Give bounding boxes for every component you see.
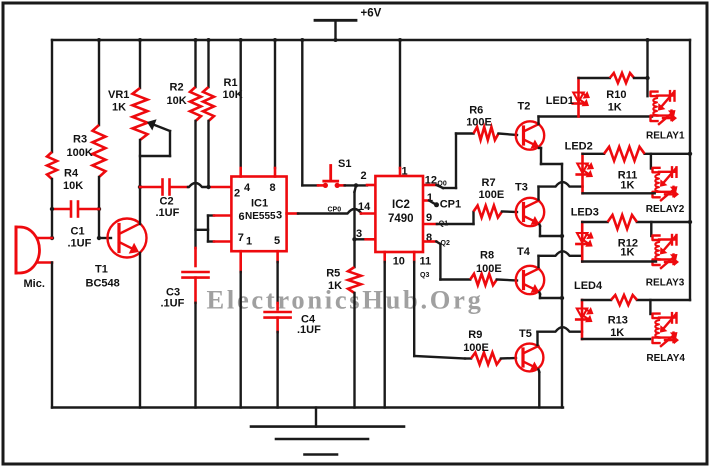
svg-text:10K: 10K [63, 180, 83, 192]
node rail junction [300, 38, 304, 42]
svg-text:2: 2 [361, 170, 367, 182]
node T3 emitter join [560, 234, 564, 238]
resistor R7 [474, 206, 503, 218]
svg-text:8: 8 [270, 182, 276, 194]
svg-text:9: 9 [426, 212, 432, 224]
svg-text:R9: R9 [468, 329, 482, 341]
wire T1 base [99, 237, 111, 239]
wire T2 emitter [539, 147, 541, 149]
wire relay4 feed [649, 300, 651, 314]
wire VR1 to C2 node [139, 140, 141, 187]
node base [97, 236, 101, 240]
wire Q1 to R7 [424, 223, 437, 226]
wire T3 emitter [538, 225, 541, 227]
wire +6V drop to relay1 [646, 40, 648, 96]
wire Q2 to R8 [424, 240, 437, 243]
svg-text:T5: T5 [519, 328, 532, 340]
svg-text:C2: C2 [160, 196, 174, 208]
svg-text:S1: S1 [338, 158, 351, 170]
svg-text:1K: 1K [620, 247, 634, 259]
node R10 junction [645, 76, 649, 80]
relay RELAY3 [653, 236, 660, 241]
wire IC1 pin1 to ground [239, 251, 242, 272]
wire ch4 top [582, 299, 611, 301]
node rail junction [97, 38, 101, 42]
node R1 bottom [206, 185, 210, 189]
svg-text:.1UF: .1UF [68, 237, 92, 249]
resistor R12 [608, 215, 637, 229]
svg-text:CP0: CP0 [328, 207, 342, 214]
wire IC1 pin8 to rail [274, 40, 276, 168]
svg-text:100E: 100E [476, 263, 502, 275]
svg-text:R10: R10 [606, 89, 626, 101]
wire rail to R1 [207, 40, 209, 87]
pin CP1 stub [424, 199, 430, 202]
wire ch2 bottom [583, 192, 655, 194]
capacitor C1 [70, 202, 73, 217]
svg-text:R8: R8 [480, 250, 494, 262]
wire mic to ground rail [51, 263, 53, 408]
wire rail to R3 [98, 40, 100, 125]
resistor R13 [611, 295, 637, 305]
svg-text:NE555: NE555 [245, 211, 276, 222]
led LED2 [581, 154, 584, 194]
svg-text:.1UF: .1UF [161, 297, 185, 309]
wire rail to S1 [301, 40, 303, 185]
node C1 right [97, 207, 101, 211]
node rail junction [207, 38, 211, 42]
svg-text:14: 14 [358, 201, 371, 213]
svg-text:10: 10 [393, 256, 405, 268]
svg-text:T4: T4 [517, 246, 531, 258]
wire rail to R2 [194, 40, 196, 87]
wire S1 junction down [355, 185, 357, 192]
wire ground bottom rail [52, 406, 563, 408]
svg-text:T2: T2 [518, 101, 531, 113]
led LED4 [581, 300, 584, 339]
power +6V symbol [334, 20, 336, 40]
svg-text:7: 7 [238, 232, 244, 244]
svg-text:R5: R5 [326, 268, 340, 280]
resistor R5 [348, 267, 361, 293]
wire C3 to ground rail [194, 278, 197, 303]
svg-text:RELAY3: RELAY3 [646, 278, 685, 289]
counter IC2 7490 box [375, 176, 423, 252]
wire R6 to T2 base [499, 134, 518, 136]
wire T3 collector [537, 187, 539, 200]
wire +6V top rail [52, 39, 690, 41]
resistor R4 [47, 152, 57, 179]
resistor R9 [471, 353, 501, 365]
wire C2 to pin2 with hop [172, 186, 189, 189]
microphone Mic. [15, 227, 18, 273]
resistor R1 [203, 87, 214, 121]
wire IC1 pin5 to C4 [276, 251, 279, 262]
svg-text:RELAY4: RELAY4 [646, 353, 685, 364]
svg-text:IC2: IC2 [392, 199, 410, 211]
svg-text:2: 2 [234, 187, 240, 199]
wire ch1 top [579, 77, 610, 79]
svg-text:4: 4 [244, 182, 251, 194]
wire R5 to ground [353, 293, 355, 408]
svg-text:C1: C1 [71, 226, 85, 238]
svg-text:LED3: LED3 [571, 206, 599, 218]
svg-text:IC1: IC1 [251, 197, 268, 209]
relay RELAY2 [653, 168, 660, 173]
wire T1 collector [139, 187, 141, 224]
wire Q3 pin11 to R9 [413, 252, 416, 262]
svg-text:.1UF: .1UF [156, 207, 180, 219]
svg-text:100E: 100E [463, 342, 489, 354]
svg-text:10K: 10K [167, 95, 187, 107]
wire ch2 top [583, 153, 605, 155]
resistor R8 [470, 274, 497, 285]
svg-text:.1UF: .1UF [297, 324, 321, 336]
svg-text:7490: 7490 [388, 213, 414, 225]
wire IC1 pin4 to rail [239, 40, 241, 168]
svg-text:R3: R3 [73, 134, 87, 146]
wire T4 emitter [538, 293, 541, 295]
wire rail to VR1 [139, 40, 141, 88]
node rail junction [334, 38, 338, 42]
svg-text:Mic.: Mic. [24, 278, 45, 290]
svg-text:Q3: Q3 [420, 272, 429, 279]
svg-text:CP1: CP1 [440, 198, 461, 210]
wire IC2 pin10 to ground [383, 252, 386, 262]
wire mic top stub [38, 237, 52, 240]
wire right rail [689, 40, 691, 300]
svg-text:R13: R13 [608, 315, 628, 327]
transistor T1 BC548 [108, 219, 147, 258]
node C2 left [138, 185, 142, 189]
svg-text:1: 1 [402, 166, 408, 178]
wire R8 to T4 base [497, 280, 517, 281]
ground [315, 408, 317, 427]
wire CP0 line [287, 212, 298, 215]
wire S1 to IC2 pin2 [345, 184, 367, 186]
wire Q0 to R6 [424, 184, 437, 187]
svg-text:LED2: LED2 [565, 141, 593, 153]
transistor Q T3 [516, 198, 544, 226]
svg-text:BC548: BC548 [86, 278, 120, 290]
svg-text:11: 11 [420, 256, 432, 268]
wire to IC2 pin3 [355, 238, 366, 240]
node mic-top [50, 236, 54, 240]
wire R4 to mic node [51, 179, 53, 238]
wire R1 to C2 line [207, 121, 209, 187]
svg-text:Q2: Q2 [441, 240, 450, 247]
svg-text:R6: R6 [469, 105, 483, 117]
svg-text:+6V: +6V [361, 8, 382, 20]
wire ch1 bottom [539, 115, 653, 117]
wire emitter rail [561, 164, 563, 408]
potentiometer VR1 [133, 88, 148, 140]
wire IC2 pin1 to rail [399, 40, 401, 168]
capacitor C3 [183, 271, 209, 274]
wire C4 to ground [276, 318, 279, 332]
wire rail to R4 [51, 40, 53, 152]
switch S1 [318, 184, 325, 187]
svg-text:T1: T1 [95, 264, 108, 276]
svg-text:1: 1 [246, 236, 252, 248]
svg-text:LED1: LED1 [546, 95, 574, 107]
svg-text:1K: 1K [608, 101, 622, 113]
transistor Q T5 [516, 344, 544, 372]
wire R7 to T3 base [502, 210, 517, 213]
svg-text:R1: R1 [224, 77, 238, 89]
svg-text:R2: R2 [170, 82, 184, 94]
wire R10 to relay1 [634, 77, 647, 79]
svg-text:3: 3 [356, 228, 362, 240]
svg-text:3: 3 [276, 209, 282, 221]
svg-text:R7: R7 [482, 177, 496, 189]
resistor R10 [610, 73, 634, 83]
wire ch4 bottom [582, 338, 650, 340]
wire T1 emitter to ground [139, 253, 141, 408]
transistor Q T4 [516, 266, 544, 294]
node T4 emitter join [560, 296, 564, 300]
svg-text:T3: T3 [515, 182, 528, 194]
wire T5 emitter [537, 370, 540, 373]
wire T4 collector [537, 256, 539, 267]
svg-text:100E: 100E [466, 117, 492, 129]
svg-text:RELAY1: RELAY1 [646, 130, 685, 141]
node rail junction [194, 38, 198, 42]
resistor R2 [190, 87, 201, 121]
svg-text:1K: 1K [328, 280, 342, 292]
wire relay3 feed [650, 222, 652, 236]
resistor R6 [474, 127, 499, 140]
wire R3 to base node [98, 177, 100, 238]
op-amp U IC1 NE555 box [231, 177, 286, 252]
relay RELAY4 [653, 314, 660, 319]
node C1 left [50, 207, 54, 211]
svg-text:100K: 100K [67, 147, 93, 159]
capacitor C4 [265, 311, 291, 314]
node S1 junction [354, 183, 358, 187]
capacitor C2 [161, 180, 164, 195]
svg-text:100E: 100E [479, 189, 505, 201]
node ch2 rail join [688, 152, 692, 156]
node rail junction [138, 38, 142, 42]
svg-text:1K: 1K [620, 180, 634, 192]
node rail junction [646, 38, 650, 42]
wire ch3 bottom [582, 260, 656, 262]
wire T2 collector [537, 117, 539, 125]
node rail junction [239, 38, 243, 42]
svg-text:ElectronicsHub.Org: ElectronicsHub.Org [207, 285, 484, 315]
resistor R3 [93, 125, 106, 177]
wire ch3 top [582, 221, 607, 223]
svg-text:6: 6 [239, 211, 245, 223]
svg-text:1K: 1K [610, 327, 624, 339]
led LED1 [577, 78, 580, 117]
transistor Q T2 [516, 121, 544, 149]
wire relay2 feed [650, 154, 652, 169]
wire R9 to T5 base [501, 357, 516, 360]
wire R2 to C3 [194, 121, 196, 248]
svg-text:R4: R4 [64, 168, 79, 180]
wire mic bottom stub [38, 261, 52, 264]
node pin3 junction [352, 237, 356, 241]
svg-text:LED4: LED4 [574, 280, 603, 292]
svg-text:RELAY2: RELAY2 [646, 204, 685, 215]
svg-text:5: 5 [274, 235, 280, 247]
led LED3 [581, 222, 584, 262]
wire T5 collector [536, 332, 538, 345]
relay RELAY1 [651, 92, 658, 97]
wire pin6-7 bracket [196, 229, 209, 231]
svg-text:1K: 1K [112, 102, 126, 114]
wire C1 line [52, 208, 69, 211]
node rail junction [273, 38, 277, 42]
resistor R11 [604, 147, 645, 161]
wire C2 left [140, 186, 161, 189]
node rail junction [398, 38, 402, 42]
node ch3 rail join [688, 220, 692, 224]
wire VR1 wiper [154, 125, 170, 131]
svg-text:VR1: VR1 [108, 89, 129, 101]
